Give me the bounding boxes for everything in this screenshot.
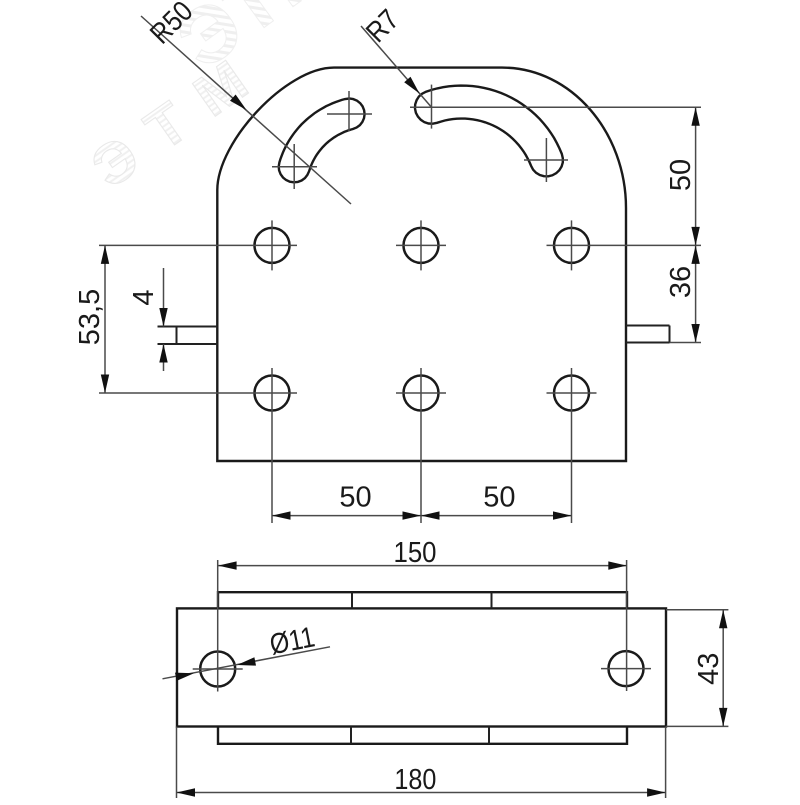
arrow 53,5 top: [101, 245, 109, 264]
svg-text:53,5: 53,5: [74, 289, 106, 345]
lower-left hole: [200, 652, 235, 687]
bottom strip divider 2: [488, 727, 490, 744]
hole top-center crosshair: [396, 244, 446, 246]
arrow 180 right: [647, 788, 666, 796]
arrow 50a right: [403, 511, 422, 519]
svg-text:36: 36: [665, 266, 697, 298]
left slot upper-end crosshair: [327, 113, 372, 115]
left dimension line 53,5: [104, 245, 106, 393]
svg-text:50: 50: [665, 159, 697, 191]
Ø11 arrow right: [237, 657, 256, 665]
arrow 50 top: [691, 107, 699, 126]
tab bottom extension to 36 dim: [670, 342, 702, 344]
left tab: [158, 326, 218, 328]
bottom strip divider 1: [350, 727, 352, 744]
arrow 4 top: [159, 308, 167, 327]
top flange strip: [218, 592, 627, 608]
arrow 150 right: [608, 561, 627, 569]
svg-text:150: 150: [394, 537, 437, 569]
hole top-left: [255, 228, 290, 263]
arrow 180 left: [177, 788, 196, 796]
hole bottom-left: [255, 376, 290, 411]
svg-text:R7: R7: [360, 4, 405, 49]
R50 arrowhead: [230, 95, 247, 111]
hole bottom-right crosshair + 50-dim extension: [547, 392, 597, 394]
bottom dimension line 50+50: [272, 515, 572, 517]
hole top-right crosshair + 50/36 extension: [547, 244, 702, 246]
lower-right hole crosshair + 150 extension: [601, 668, 651, 670]
right curved slot: [415, 86, 563, 177]
hole bottom-left crosshair + 53,5 extension + 50-dim extension: [99, 392, 297, 394]
right slot lower-end crosshair: [524, 159, 568, 161]
svg-text:50: 50: [339, 482, 371, 514]
left curved slot: [279, 99, 365, 183]
180 extension lines: [176, 727, 178, 799]
dimension line 180: [177, 792, 666, 794]
lower-right hole: [609, 651, 644, 686]
lower-left hole crosshair + 150 extension: [193, 668, 243, 670]
right tab: [626, 325, 670, 327]
arrow 43 top: [719, 610, 727, 629]
top strip divider 1: [351, 592, 353, 608]
arrow 4 bottom: [159, 344, 167, 363]
right slot upper-end crosshair + 50-dim extension line: [410, 106, 701, 108]
top strip divider 2: [491, 592, 493, 608]
plate outline (top view): [217, 68, 626, 461]
arrow 50b left: [421, 511, 440, 519]
hole bottom-right: [554, 376, 589, 411]
R50 leader line: [141, 16, 351, 204]
hole bottom-center crosshair + 50-dim extension: [396, 392, 446, 394]
R7 arrowhead: [404, 77, 419, 94]
dimension line 43: [722, 610, 724, 727]
bottom flange strip: [218, 727, 627, 744]
hole top-center: [404, 228, 439, 263]
arrow 36 bottom: [691, 324, 699, 343]
arrow 50 bottom: [691, 227, 699, 246]
arrow 36 top: [691, 245, 699, 264]
hole top-left crosshair + 53,5 extension: [99, 244, 297, 246]
arrow 53,5 bottom: [101, 375, 109, 394]
R7 leader line: [361, 26, 432, 107]
svg-text:50: 50: [483, 482, 515, 514]
dimension line 150: [218, 565, 627, 567]
right dimension line 50/36: [695, 107, 697, 342]
svg-text:43: 43: [693, 653, 725, 685]
hole bottom-center: [404, 376, 439, 411]
svg-text:180: 180: [394, 764, 436, 796]
arrow 50a left: [272, 511, 291, 519]
arrow 150 left: [218, 561, 237, 569]
watermark ЭТМ logo: [80, 0, 352, 201]
svg-text:4: 4: [128, 289, 160, 305]
43 extension lines: [666, 609, 728, 611]
Ø11 leader line: [163, 647, 331, 679]
lower view main rectangle: [177, 608, 666, 726]
arrow 50b right: [553, 511, 572, 519]
svg-text:Ø11: Ø11: [267, 621, 317, 661]
Ø11 arrow left: [175, 673, 194, 681]
left slot lower-end crosshair: [272, 166, 317, 168]
dimension 4 (tab): [163, 268, 165, 327]
hole top-right: [554, 228, 589, 263]
arrow 43 bottom: [719, 708, 727, 727]
